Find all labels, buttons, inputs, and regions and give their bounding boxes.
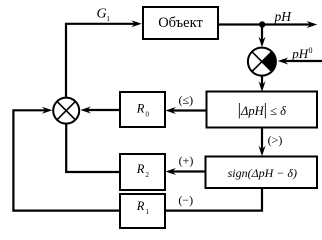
block R0 [120,92,165,127]
svg-text:1: 1 [106,14,110,23]
block R2 [120,154,165,190]
svg-text:pH: pH [291,46,309,61]
node: junction dot on pH line [259,21,265,27]
block R1 [120,194,165,228]
wire: threshold block to R0 [165,107,206,114]
svg-text:0: 0 [146,111,150,119]
label G1 on feedback wire [97,6,111,22]
block sign(dpH - delta) [206,157,318,189]
svg-text:G: G [97,6,107,21]
wire: sign block to R2 [165,168,205,175]
wire: R2 to summer S1 bottom [66,124,120,172]
wire: threshold block down to sign block [259,128,266,157]
wire: pH0 setpoint input from right [278,58,322,65]
svg-text:R: R [136,102,145,116]
wire: R1 around left side up to summer S1 left input [13,107,120,211]
svg-text:R: R [136,199,145,213]
svg-text:Объект: Объект [158,15,203,31]
wire: junction down to summer S2 [259,25,266,48]
svg-text:R: R [136,162,145,176]
wire: R0 to summer S1 [80,107,120,114]
svg-text:(≤): (≤) [179,93,194,107]
block Объект [143,7,218,39]
wire: feedback from summer S1 top to Объект input [66,20,142,97]
svg-text:2: 2 [146,171,150,179]
svg-text:1: 1 [146,208,150,216]
wire: sign block bottom to R1 [165,188,262,211]
svg-text:0: 0 [309,46,313,55]
wire: Объект output pH to the right [218,21,317,28]
svg-text:sign(ΔpH − δ): sign(ΔpH − δ) [228,166,297,180]
summer S1 (mixing circle) [53,98,79,124]
svg-text:(−): (−) [178,193,193,207]
svg-text:(+): (+) [179,153,194,167]
label pH0 [291,46,312,61]
wire: summer S2 to threshold block [259,76,266,92]
block threshold |dpH| <= delta [207,92,318,128]
svg-text:pH: pH [274,9,293,24]
summer S2 (comparator circle, right quadrant filled) [248,48,276,76]
svg-text:(>): (>) [268,133,283,147]
